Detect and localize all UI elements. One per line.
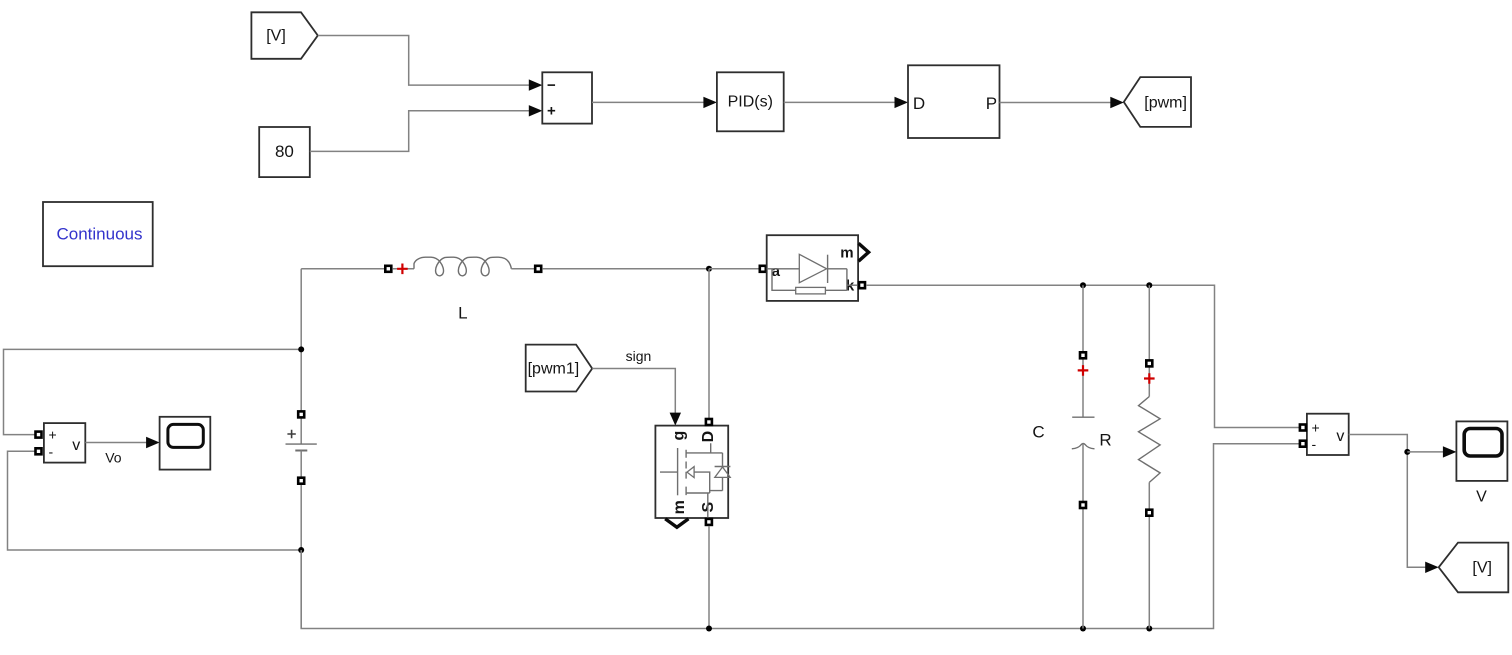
wire PID to converter [784,101,895,103]
junction dot VM2 out [1404,449,1410,455]
svg-text:+: + [49,427,57,443]
svg-text:+: + [547,102,556,119]
wire From[V] to Sum minus input [318,36,530,86]
wire VM1 plus input to top rail [4,349,302,434]
mosfet drain tick [686,443,722,453]
svg-text:-: - [1312,436,1317,452]
svg-text:V: V [1476,489,1487,506]
wire VM1 minus input to bottom rail [8,451,302,550]
svg-text:80: 80 [275,142,294,161]
bottom rail [301,444,1299,629]
wire branch to scope V [1407,451,1443,453]
diode anode port square [760,266,766,272]
diode triangle [799,254,826,282]
svg-text:L: L [458,304,467,323]
svg-text:−: − [547,77,556,94]
wire VM2 out [1349,435,1426,568]
svg-text:a: a [772,263,781,280]
voltage measurement VM2 [1307,414,1349,455]
wire 80 to Sum plus input [310,111,530,152]
mosfet gate plate [677,448,679,495]
svg-text:+: + [1312,420,1320,436]
wire coil to right port [511,268,534,270]
battery short plate [295,450,307,452]
resistor zigzag [1139,397,1161,483]
wire node to drain port [708,269,710,418]
MOSFET source port square [706,519,712,525]
VM2 plus port square [1300,425,1306,431]
wire diode k to right rail [866,285,1299,427]
junction dot battery bottom rail [298,547,304,553]
svg-text:D: D [913,94,925,113]
arrowhead into Sum plus [529,105,543,116]
arrowhead into Goto[pwm] [1110,97,1124,108]
arrowhead into Sum minus [529,79,543,90]
wire resistor bottom [1148,482,1150,628]
red plus polarity mark cap [1078,365,1089,376]
svg-text:PID(s): PID(s) [728,94,773,111]
arrowhead into scope V [1443,446,1457,457]
constant block 80 [259,127,310,177]
snubber resistor box [796,287,826,294]
svg-text:v: v [72,437,80,454]
wire into inductor [301,268,384,270]
sum block U-sum [542,72,592,123]
arrowhead into PID [703,97,717,108]
inductor right port square [535,266,541,272]
voltage measurement VM1 [44,423,85,463]
inductor coil [414,257,511,276]
arrowhead into scope Vo [146,437,160,448]
svg-text:g: g [671,431,688,441]
resistor top port square [1146,360,1152,366]
svg-text:v: v [1336,428,1344,445]
svg-text:P: P [986,94,997,113]
diode anode line [767,268,800,270]
svg-text:Vo: Vo [105,450,122,466]
MOSFET drain port square [706,419,712,425]
svg-text:m: m [840,245,853,262]
From tag [V] [251,12,317,59]
wire battery bottom [300,451,302,629]
resistor bottom port square [1146,510,1152,516]
diode cathode port square [859,282,865,288]
PID controller block [717,72,784,131]
VM1 minus port square [36,448,42,454]
junction dot capacitor bottom [1080,626,1086,632]
svg-text:-: - [49,443,54,459]
diode cathode bar [827,255,829,283]
wire cap bottom [1082,444,1084,629]
arrowhead into Goto[V] [1425,562,1439,573]
cap top port square [1080,352,1086,358]
cap bottom port square [1080,502,1086,508]
svg-text:[V]: [V] [266,28,286,45]
wire node to diode anode [709,268,759,270]
wire VM1 to Scope Vo [85,442,146,444]
wire pwm1 to gate [592,369,675,414]
junction dot capacitor top [1080,282,1086,288]
svg-text:[pwm]: [pwm] [1144,94,1187,111]
scope block V [1456,421,1507,505]
battery bottom port square [298,478,304,484]
mosfet source path [686,472,722,518]
red plus polarity mark resistor [1144,373,1155,384]
wire resistor top [1148,285,1150,396]
svg-text:m: m [671,500,688,514]
Goto tag [V] [1439,543,1509,593]
junction dot resistor top [1146,282,1152,288]
mosfet channel dashes [685,450,687,495]
svg-text:C: C [1032,422,1044,441]
junction dot resistor bottom [1146,626,1152,632]
VM1 plus port square [36,432,42,438]
inductor left port square [385,266,391,272]
scope block (Vo) [160,417,211,470]
VM2 minus port square [1300,441,1306,447]
junction dot mosfet source bottom [706,626,712,632]
Goto tag [pwm] [1124,77,1191,127]
battery plus label [287,430,295,438]
node junction dot above MOSFET [706,266,712,272]
junction dot battery top rail [298,346,304,352]
wire source to bottom rail [708,526,710,629]
arrowhead into converter D input [895,97,909,108]
converter subsystem block D/P [908,65,1000,138]
svg-text:Continuous: Continuous [56,225,142,244]
red plus polarity mark inductor [397,264,408,275]
cap curved plate [1072,444,1095,449]
wire converter to Goto[pwm] [1000,102,1112,104]
svg-text:D: D [700,431,717,443]
snubber path [772,269,847,291]
wire battery top [300,269,302,444]
svg-text:[pwm1]: [pwm1] [528,360,580,377]
diode m output chevron [859,243,869,261]
cap top plate [1072,416,1094,418]
battery long plate [286,443,317,445]
wire cap top [1082,285,1084,417]
svg-text:R: R [1099,431,1111,450]
mosfet body diode [715,453,731,491]
arrowhead into gate (down) [670,413,681,426]
mosfet gate lead [660,471,678,473]
battery top port square [298,411,304,417]
diode cathode line [828,269,859,291]
svg-text:[V]: [V] [1472,559,1492,576]
svg-text:sign: sign [626,348,652,364]
wire port to coil [392,268,414,270]
wire inductor to node [542,268,709,270]
MOSFET m output chevron [665,519,688,528]
mosfet body arrow [687,467,694,478]
wire Sum to PID [592,101,704,103]
